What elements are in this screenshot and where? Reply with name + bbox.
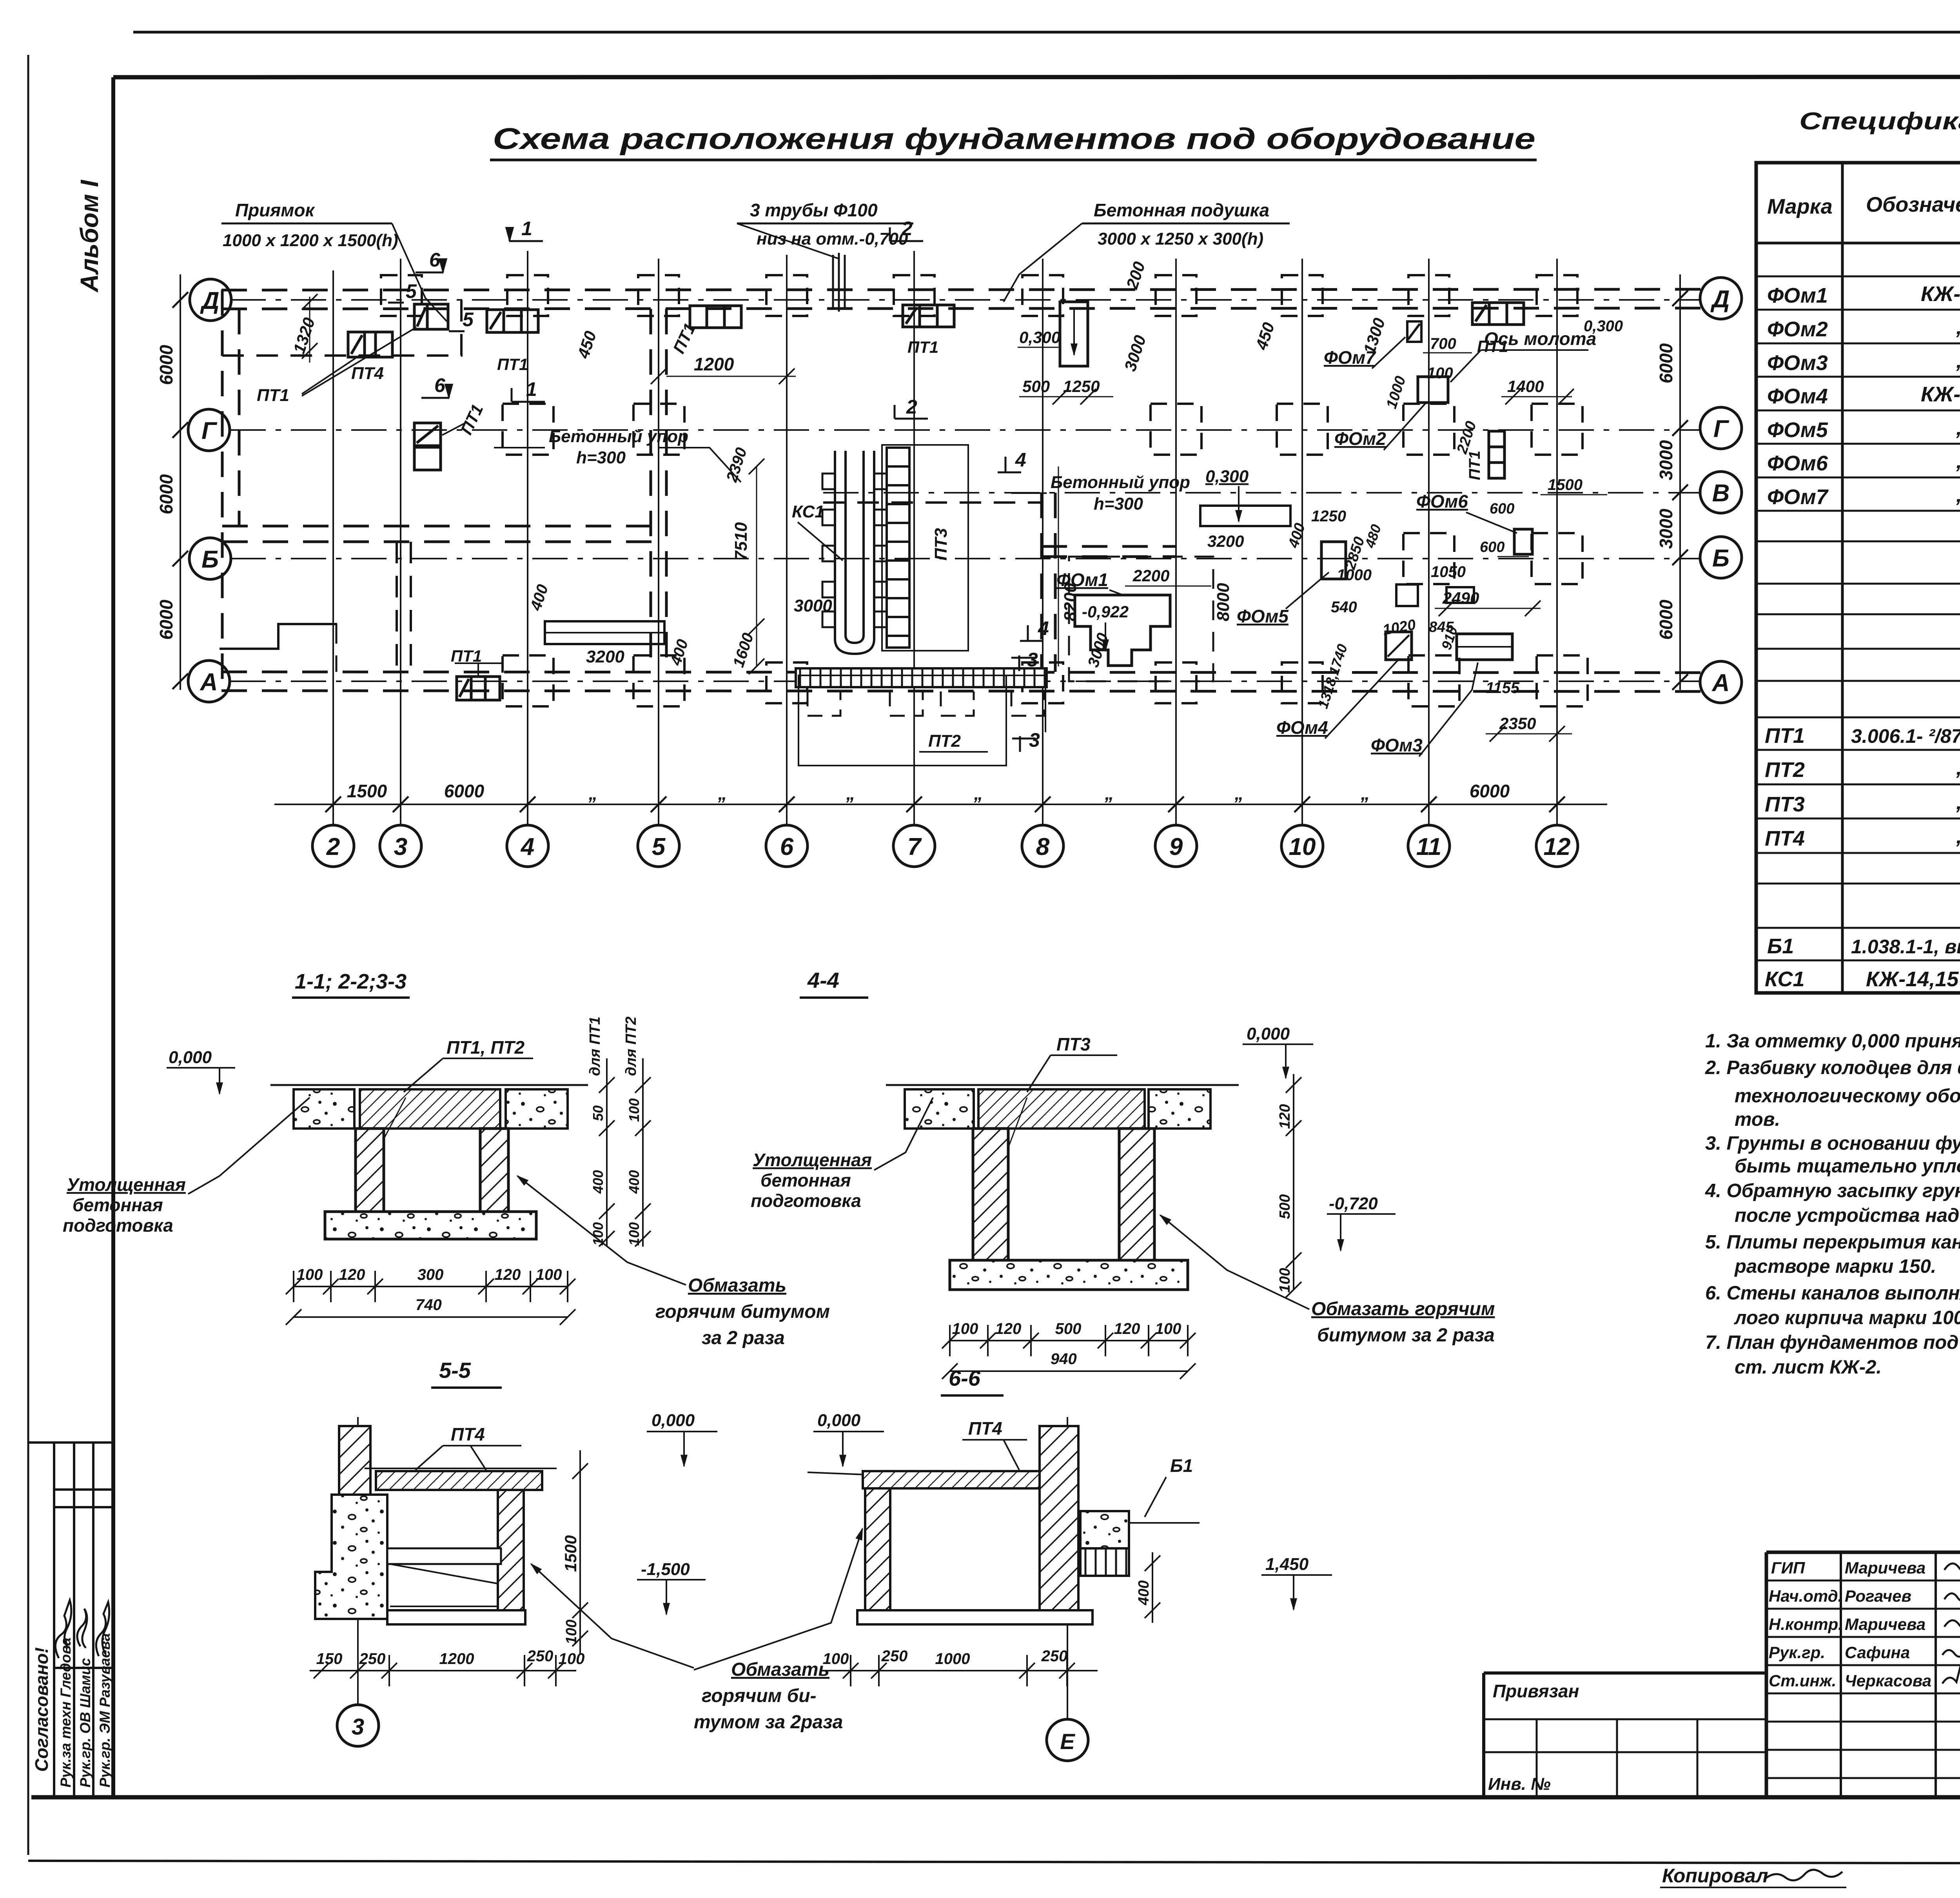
big vertical wall at col 5 (double dashed) <box>650 309 652 672</box>
svg-text:1. За отметку 0,000 принята о: 1. За отметку 0,000 принята отметка чист… <box>1705 1031 1960 1052</box>
svg-text:4: 4 <box>1038 617 1049 639</box>
svg-text:1500: 1500 <box>347 781 387 801</box>
left end wall (double dashed vertical) <box>221 290 224 691</box>
svg-text:6000: 6000 <box>156 599 176 640</box>
svg-text:ПТ2: ПТ2 <box>928 731 961 751</box>
svg-text:100: 100 <box>559 1650 585 1668</box>
channel walls hatched <box>356 1129 384 1212</box>
svg-text:8000: 8000 <box>1214 583 1233 621</box>
3 pipes symbol near col 6 top <box>833 253 845 312</box>
svg-text:400: 400 <box>626 1170 642 1194</box>
svg-text:2350: 2350 <box>1499 714 1536 733</box>
svg-text:Марка: Марка <box>1767 195 1833 218</box>
row Г <box>503 404 554 455</box>
left wall <box>865 1488 890 1612</box>
ПТ3 plate strip (vertical ladder) <box>887 448 909 648</box>
svg-text:Обмазать горячим: Обмазать горячим <box>1311 1299 1495 1319</box>
svg-text:1: 1 <box>526 378 537 400</box>
svg-text:ФОм1: ФОм1 <box>1056 570 1108 590</box>
svg-text:h=300: h=300 <box>1094 494 1143 514</box>
svg-text:250: 250 <box>527 1648 554 1665</box>
svg-text:6: 6 <box>780 833 794 860</box>
svg-text:„: „ <box>846 783 855 804</box>
Б1 lintel block <box>1080 1511 1129 1548</box>
dim 1320 near приямок <box>309 297 310 363</box>
svg-text:ПТ1: ПТ1 <box>451 647 482 665</box>
slab ПТ1 near col 11-12 on Д <box>1472 303 1524 325</box>
svg-text:7. План фундаментов под не: 7. План фундаментов под несущие конструк… <box>1705 1332 1960 1353</box>
svg-text:КС1: КС1 <box>792 502 824 521</box>
svg-text:КЖ-13: КЖ-13 <box>1921 383 1960 406</box>
svg-text:Г: Г <box>201 417 218 445</box>
svg-text:„: „ <box>1956 483 1960 506</box>
svg-text:Б: Б <box>201 546 219 573</box>
svg-text:для ПТ1: для ПТ1 <box>587 1016 603 1076</box>
svg-text:Рук.за техн Гледова: Рук.за техн Гледова <box>58 1637 74 1787</box>
svg-text:Обмазать: Обмазать <box>688 1275 786 1296</box>
svg-text:1000 х 1200 х 1500(h): 1000 х 1200 х 1500(h) <box>223 231 398 250</box>
bottom dims <box>294 1286 568 1287</box>
привязан box <box>1484 1673 1766 1797</box>
floor line <box>270 1084 588 1086</box>
right vertical dims 4-4 <box>1293 1074 1294 1290</box>
ФОм1 stepped foundation <box>1075 595 1170 666</box>
slab near Д col 3 (приямок) <box>414 304 448 329</box>
table body texts <box>1765 250 1960 991</box>
slab band: center hatched plate <box>360 1089 500 1129</box>
svg-text:А: А <box>200 669 218 696</box>
svg-text:битумом за 2 раза: битумом за 2 раза <box>1317 1325 1495 1346</box>
svg-text:КЖ-12: КЖ-12 <box>1921 282 1960 306</box>
svg-text:1500: 1500 <box>1548 476 1583 494</box>
svg-text:Рогачев: Рогачев <box>1845 1587 1911 1605</box>
svg-text:Д: Д <box>200 287 220 314</box>
wall under row Г (double dashed) <box>222 525 666 528</box>
svg-text:Утолщенная: Утолщенная <box>753 1150 872 1170</box>
svg-text:Приямок: Приямок <box>235 200 315 220</box>
svg-text:Ось молота: Ось молота <box>1484 328 1596 349</box>
svg-text:6000: 6000 <box>156 345 176 385</box>
dashed pier protrusions under А <box>808 691 1044 716</box>
svg-text:растворе марки 150.: растворе марки 150. <box>1734 1256 1936 1277</box>
svg-text:6-6: 6-6 <box>949 1366 981 1390</box>
right dims 6-6 <box>1152 1552 1153 1623</box>
приямок room partition below Д <box>222 354 463 357</box>
bottom dims 6-6 <box>823 1670 1098 1671</box>
svg-text:0,300: 0,300 <box>1019 328 1060 347</box>
table header texts <box>1767 183 1960 224</box>
svg-text:Согласовано!: Согласовано! <box>31 1647 52 1772</box>
svg-text:120: 120 <box>1114 1320 1140 1337</box>
svg-text:ФОм2: ФОм2 <box>1767 318 1828 341</box>
бетонный упор 1 (left) <box>545 621 664 644</box>
svg-text:ПТ4: ПТ4 <box>968 1418 1002 1439</box>
svg-text:400: 400 <box>1136 1580 1152 1606</box>
row Д <box>381 275 422 316</box>
svg-text:„: „ <box>1956 315 1960 339</box>
svg-text:12: 12 <box>1544 833 1571 860</box>
svg-text:3000: 3000 <box>1656 508 1676 549</box>
svg-text:2: 2 <box>906 396 917 418</box>
wall В axis partial double dash left of col 8 <box>823 501 1043 504</box>
svg-text:1000: 1000 <box>1337 566 1372 584</box>
svg-text:8: 8 <box>1036 833 1050 860</box>
svg-text:ПТ3: ПТ3 <box>1056 1034 1091 1054</box>
section marks on plan <box>406 218 1049 751</box>
svg-text:0,000: 0,000 <box>1247 1024 1290 1043</box>
svg-text:400: 400 <box>590 1170 606 1194</box>
svg-text:ФОм2: ФОм2 <box>1334 428 1386 449</box>
svg-text:Инв. №: Инв. № <box>1488 1775 1551 1794</box>
svg-text:h=300: h=300 <box>576 448 626 467</box>
svg-text:3000: 3000 <box>794 596 832 615</box>
svg-text:„: „ <box>1956 756 1960 779</box>
svg-text:Н.контр.: Н.контр. <box>1769 1615 1843 1633</box>
slab ПТ1 near col 5-6 <box>690 306 741 328</box>
svg-text:„: „ <box>588 783 598 804</box>
svg-text:500: 500 <box>1022 377 1050 396</box>
right wall <box>498 1490 524 1612</box>
svg-text:ГИП: ГИП <box>1771 1559 1805 1577</box>
svg-text:1500: 1500 <box>561 1535 580 1572</box>
svg-text:„: „ <box>1361 783 1370 804</box>
svg-text:6: 6 <box>434 374 446 396</box>
left approval sidebar table <box>28 1443 113 1797</box>
slab band: left stipple <box>294 1089 354 1129</box>
svg-text:Е: Е <box>1060 1729 1075 1754</box>
bottom footing <box>857 1610 1093 1624</box>
svg-text:0,000: 0,000 <box>169 1048 212 1067</box>
svg-text:„: „ <box>718 783 727 804</box>
svg-text:4-4: 4-4 <box>807 968 839 993</box>
svg-text:100: 100 <box>536 1266 562 1283</box>
svg-text:1155: 1155 <box>1486 679 1520 697</box>
right dimension chain <box>1679 274 1681 690</box>
right big wall <box>1040 1426 1078 1612</box>
slab band: right stipple <box>506 1089 568 1129</box>
svg-text:Привязан: Привязан <box>1493 1681 1579 1701</box>
svg-text:А: А <box>1711 670 1730 697</box>
svg-text:Маричева: Маричева <box>1845 1559 1926 1577</box>
svg-text:7510: 7510 <box>731 522 751 561</box>
svg-text:100: 100 <box>297 1266 323 1283</box>
svg-text:5: 5 <box>463 308 474 330</box>
svg-text:-0,922: -0,922 <box>1082 602 1129 621</box>
svg-text:Д: Д <box>1710 286 1730 313</box>
svg-text:Сафина: Сафина <box>1845 1643 1910 1662</box>
svg-text:„: „ <box>1105 783 1114 804</box>
svg-text:6000: 6000 <box>1656 599 1676 640</box>
slab ПТ1 near col 7 <box>903 305 954 327</box>
svg-text:ПТ3: ПТ3 <box>931 528 951 561</box>
svg-text:5: 5 <box>406 280 417 302</box>
svg-text:2: 2 <box>326 833 340 860</box>
svg-text:ПТ1: ПТ1 <box>1765 724 1805 748</box>
svg-text:Рук.гр. ОВ Шамис: Рук.гр. ОВ Шамис <box>77 1658 93 1787</box>
slab ПТ1 on row А col 4 <box>457 677 500 700</box>
svg-text:700: 700 <box>1430 335 1456 352</box>
svg-text:3000 х 1250 х 300(h): 3000 х 1250 х 300(h) <box>1098 229 1263 249</box>
svg-text:после устройства над ними: после устройства над ними перекрытий. <box>1735 1205 1960 1226</box>
svg-text:лого кирпича марки 100 на: лого кирпича марки 100 на растворе марки… <box>1734 1307 1960 1328</box>
svg-text:100: 100 <box>1277 1268 1293 1293</box>
svg-text:600: 600 <box>1490 501 1514 517</box>
svg-text:ПТ1: ПТ1 <box>257 386 289 405</box>
svg-text:100: 100 <box>1155 1320 1181 1337</box>
svg-text:Маричева: Маричева <box>1845 1615 1926 1633</box>
svg-text:120: 120 <box>339 1266 365 1283</box>
svg-text:ФОм3: ФОм3 <box>1371 735 1423 755</box>
svg-text:0,000: 0,000 <box>817 1411 861 1430</box>
vertical column axis lines 2..12 <box>333 251 1557 825</box>
svg-text:300: 300 <box>417 1266 444 1283</box>
svg-text:4. Обратную засыпку грунта: 4. Обратную засыпку грунта за стены кана… <box>1705 1180 1960 1201</box>
svg-text:100: 100 <box>952 1320 978 1337</box>
page outer thin border left <box>27 55 29 1855</box>
svg-text:ПТ4: ПТ4 <box>351 364 384 383</box>
bottom footing <box>387 1610 525 1624</box>
svg-text:Обозначение: Обозначение <box>1866 193 1960 216</box>
svg-text:ПТ1: ПТ1 <box>497 355 528 374</box>
svg-text:250: 250 <box>881 1648 908 1665</box>
svg-text:-0,720: -0,720 <box>1329 1194 1378 1213</box>
ФОм4 <box>1386 632 1412 660</box>
svg-text:11: 11 <box>1416 833 1441 860</box>
small anchor rects between Б and А <box>1396 584 1418 606</box>
bottom dims 5-5 <box>310 1670 576 1671</box>
bottom column circles <box>312 825 1578 867</box>
svg-text:6000: 6000 <box>1656 343 1676 383</box>
svg-text:бетонная: бетонная <box>760 1170 851 1190</box>
page outer thin border bottom <box>28 1861 1960 1864</box>
svg-text:3: 3 <box>1029 729 1040 751</box>
svg-text:ФОм4: ФОм4 <box>1276 717 1328 738</box>
svg-text:1050: 1050 <box>1431 563 1466 581</box>
svg-text:ФОм5: ФОм5 <box>1237 606 1289 626</box>
svg-text:„: „ <box>1956 824 1960 848</box>
svg-text:6. Стены каналов выполнять: 6. Стены каналов выполнять из керамическ… <box>1705 1283 1960 1304</box>
svg-text:3200: 3200 <box>1207 532 1244 550</box>
svg-text:0,000: 0,000 <box>652 1411 695 1430</box>
svg-text:1: 1 <box>521 218 532 240</box>
svg-text:540: 540 <box>1331 599 1357 616</box>
svg-text:ФОм1: ФОм1 <box>1767 284 1828 307</box>
svg-text:бетонная: бетонная <box>73 1195 163 1215</box>
svg-text:6000: 6000 <box>1470 781 1510 801</box>
dashed boundary around ФОм1 <box>1069 557 1213 681</box>
svg-text:2490: 2490 <box>1442 589 1479 607</box>
svg-text:1,450: 1,450 <box>1265 1555 1309 1574</box>
horizontal row axis lines (dash-dot) <box>230 300 1700 681</box>
svg-text:0,300: 0,300 <box>1584 318 1623 335</box>
svg-text:Рук.гр.: Рук.гр. <box>1769 1643 1825 1662</box>
svg-text:ПТ1, ПТ2: ПТ1, ПТ2 <box>446 1037 525 1058</box>
perimeter wall along row А (double dashed) <box>221 672 1701 673</box>
svg-text:1.038.1-1, вып. 1: 1.038.1-1, вып. 1 <box>1851 936 1960 958</box>
svg-text:250: 250 <box>1041 1648 1068 1665</box>
svg-text:подготовка: подготовка <box>63 1215 173 1236</box>
svg-text:5-5: 5-5 <box>439 1358 471 1383</box>
svg-text:Г: Г <box>1713 416 1730 443</box>
svg-text:100: 100 <box>626 1098 642 1122</box>
svg-text:КС1: КС1 <box>1765 967 1805 991</box>
axis line down to circle 3 <box>357 1417 359 1705</box>
svg-text:2: 2 <box>901 218 913 240</box>
svg-text:1250: 1250 <box>1063 377 1100 396</box>
svg-text:Б: Б <box>1712 545 1730 572</box>
svg-text:250: 250 <box>359 1650 386 1668</box>
svg-text:1000: 1000 <box>935 1650 970 1668</box>
svg-text:10: 10 <box>1289 833 1316 860</box>
svg-text:Копировал: Копировал <box>1662 1865 1768 1887</box>
svg-text:ФОм6: ФОм6 <box>1416 491 1468 512</box>
svg-text:ст. лист КЖ-2.: ст. лист КЖ-2. <box>1735 1357 1882 1378</box>
бетонная подушка at col 8 top <box>1060 302 1088 366</box>
ПТ2 plates strip along А <box>796 668 1047 687</box>
vertical slab pair below Д col 3 <box>414 423 441 470</box>
right zone walls near ФОм1 <box>1040 493 1043 672</box>
svg-text:940: 940 <box>1051 1350 1077 1368</box>
svg-text:4: 4 <box>520 833 534 860</box>
svg-text:3000: 3000 <box>1656 440 1676 480</box>
slab ПТ1 near col 3-4 <box>487 310 538 332</box>
svg-text:Обмазать: Обмазать <box>731 1659 829 1680</box>
ФОм2 <box>1418 377 1448 403</box>
svg-text:4: 4 <box>1015 449 1026 471</box>
small room bottom-left: solid step <box>220 624 337 649</box>
svg-text:2. Разбивку колодцев для ф: 2. Разбивку колодцев для фундаментных бо… <box>1705 1057 1960 1078</box>
right vertical dim chains <box>606 1058 608 1247</box>
slab ПТ4 near Д/2-3 <box>348 332 392 357</box>
right dims 5-5 <box>579 1450 581 1654</box>
row Б right <box>1403 533 1454 584</box>
svg-text:120: 120 <box>995 1320 1022 1337</box>
page outer thin border top <box>133 31 1960 34</box>
svg-text:500: 500 <box>1055 1320 1082 1337</box>
left upper wall <box>339 1426 370 1495</box>
svg-text:для ПТ2: для ПТ2 <box>623 1016 639 1076</box>
left dimension chain <box>180 274 181 690</box>
svg-text:50: 50 <box>590 1105 606 1121</box>
column footprints (dashed squares) <box>381 275 1588 706</box>
svg-text:7: 7 <box>907 833 922 860</box>
svg-text:ФОм5: ФОм5 <box>1767 418 1828 442</box>
wall at col 3 lower part <box>396 542 398 672</box>
svg-text:КЖ-14,15: КЖ-14,15 <box>1866 967 1959 991</box>
svg-text:„: „ <box>1956 416 1960 439</box>
svg-text:„: „ <box>1956 449 1960 473</box>
left footing (stipped L) <box>315 1495 387 1619</box>
svg-text:5. Плиты перекрытия каналов: 5. Плиты перекрытия каналов укладывать н… <box>1705 1232 1960 1253</box>
svg-text:„: „ <box>1234 783 1244 804</box>
axis circles left <box>188 279 231 702</box>
svg-text:за 2 раза: за 2 раза <box>702 1328 785 1348</box>
svg-text:100: 100 <box>626 1222 642 1246</box>
floor line <box>808 1472 866 1475</box>
signatures squiggles <box>1942 1517 1960 1686</box>
svg-text:горячим битумом: горячим битумом <box>655 1301 830 1322</box>
svg-text:3: 3 <box>1027 649 1038 671</box>
bottom dimension texts <box>347 781 1510 804</box>
svg-text:Альбом I: Альбом I <box>75 180 103 293</box>
ФОм5 <box>1321 542 1346 579</box>
perimeter wall along row Д (double dashed) <box>221 289 1701 290</box>
svg-text:ФОм4: ФОм4 <box>1767 385 1828 408</box>
svg-text:Рук.гр. ЭМ Разуваева: Рук.гр. ЭМ Разуваева <box>97 1633 113 1787</box>
row А <box>503 655 554 706</box>
КС1 inspection channel <box>835 451 874 654</box>
svg-text:Бетонный упор: Бетонный упор <box>1051 473 1190 492</box>
svg-text:150: 150 <box>316 1650 343 1668</box>
svg-text:6000: 6000 <box>444 781 485 801</box>
svg-text:ПТ4: ПТ4 <box>1765 827 1805 850</box>
svg-text:Схема расположения фундаментов: Схема расположения фундаментов под обору… <box>493 122 1535 156</box>
svg-text:3: 3 <box>394 833 407 860</box>
ФОм6 <box>1514 529 1532 554</box>
dims 4-4 <box>950 1340 1188 1341</box>
svg-text:2200: 2200 <box>1132 566 1169 585</box>
svg-text:„: „ <box>974 783 983 804</box>
svg-text:600: 600 <box>1480 539 1504 555</box>
ФОм7 <box>1407 321 1421 342</box>
svg-text:Б1: Б1 <box>1767 934 1794 958</box>
svg-text:быть тщательно уплотнены.: быть тщательно уплотнены. <box>1735 1156 1960 1177</box>
main frame <box>113 77 1960 77</box>
svg-text:технологическому оборудованию: технологическому оборудованию до бетонир… <box>1735 1085 1960 1107</box>
svg-text:тумом за 2раза: тумом за 2раза <box>694 1712 843 1733</box>
svg-text:3. Грунты в основании фунда: 3. Грунты в основании фундаментов под об… <box>1705 1133 1960 1154</box>
svg-text:3: 3 <box>352 1714 364 1740</box>
svg-text:1200: 1200 <box>694 354 734 374</box>
top slab <box>376 1471 542 1490</box>
svg-text:„: „ <box>1956 790 1960 814</box>
svg-text:Спецификация к схеме располо: Спецификация к схеме расположения <box>1799 108 1960 135</box>
svg-text:100: 100 <box>563 1620 580 1644</box>
svg-text:1200: 1200 <box>439 1650 474 1668</box>
bottom dimension line <box>274 804 1607 805</box>
svg-text:ПТ1: ПТ1 <box>907 338 938 356</box>
svg-text:1250: 1250 <box>1311 508 1346 525</box>
svg-text:Нач.отд.: Нач.отд. <box>1769 1587 1842 1605</box>
svg-text:горячим би-: горячим би- <box>702 1686 817 1706</box>
svg-text:ФОм6: ФОм6 <box>1767 452 1828 475</box>
svg-text:1-1; 2-2;3-3: 1-1; 2-2;3-3 <box>295 970 407 993</box>
svg-text:0,300: 0,300 <box>1205 467 1249 486</box>
svg-text:В: В <box>1712 480 1730 507</box>
svg-text:3.006.1- ²/87 , вып. 1-2: 3.006.1- ²/87 , вып. 1-2 <box>1851 725 1960 747</box>
svg-text:подготовка: подготовка <box>751 1190 861 1211</box>
inner ledge <box>387 1548 501 1564</box>
svg-text:500: 500 <box>1277 1194 1293 1219</box>
svg-text:ФОм3: ФОм3 <box>1767 351 1828 375</box>
svg-text:6: 6 <box>429 249 441 271</box>
vertical slab ПТ1 near Г col 11 <box>1489 431 1504 478</box>
svg-text:120: 120 <box>1277 1104 1293 1129</box>
svg-text:Утолщенная: Утолщенная <box>67 1174 186 1195</box>
svg-text:Бетонный упор: Бетонный упор <box>549 427 688 446</box>
footing stipple <box>325 1212 536 1239</box>
svg-text:Бетонная подушка: Бетонная подушка <box>1094 200 1269 220</box>
svg-text:ФОм7: ФОм7 <box>1324 347 1376 368</box>
axis circles right <box>1700 278 1742 703</box>
svg-text:Черкасова: Черкасова <box>1845 1671 1931 1690</box>
signature rows <box>1769 1559 1931 1690</box>
top slab <box>863 1471 1040 1488</box>
svg-text:1400: 1400 <box>1507 377 1544 396</box>
svg-text:-1,500: -1,500 <box>641 1560 690 1579</box>
svg-text:740: 740 <box>416 1296 442 1314</box>
axis to circle Е <box>1067 1417 1068 1719</box>
